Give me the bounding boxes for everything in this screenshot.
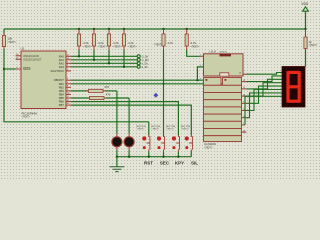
svg-text:SIL: SIL: [191, 160, 198, 165]
svg-text:RA0: RA0: [59, 54, 65, 58]
pin RB6 (12): [59, 100, 71, 104]
pin RB2 (8): [59, 85, 71, 89]
svg-text:<TEXT>: <TEXT>: [151, 128, 160, 131]
ground: [110, 157, 125, 172]
button RST: [137, 126, 154, 165]
node junction RB1/SEC: [162, 83, 164, 85]
svg-text:470: 470: [106, 93, 111, 97]
pin RA0 (17): [59, 54, 71, 58]
seg D: [288, 100, 300, 103]
node junction bus KPY: [177, 156, 179, 158]
node junction bus RST: [148, 156, 150, 158]
pin RA1 (18): [59, 58, 71, 62]
marker no-connect diamond: [153, 93, 158, 98]
pin U2 out a: [239, 72, 247, 74]
svg-text:U_Mh: U_Mh: [142, 58, 149, 62]
node junction VDD rail / R8: [304, 28, 306, 30]
svg-text:OSC1/CLKIN: OSC1/CLKIN: [23, 54, 39, 58]
pin RB0/INT (6): [54, 78, 71, 82]
resistor ladder U2 bar3: [204, 100, 242, 107]
svg-text:RST: RST: [144, 160, 153, 165]
wire left rail (MCLR pull-up net): [3, 29, 5, 34]
seg C: [298, 86, 301, 102]
resistor ladder U2 bar7: [204, 129, 242, 136]
wire R6 down to button SEC: [163, 50, 165, 137]
svg-text:<TEXT>: <TEXT>: [219, 50, 228, 53]
wire left rail lower: [4, 49, 149, 122]
svg-text:12: 12: [243, 80, 245, 82]
seg E: [286, 86, 289, 102]
svg-text:<TEXT>: <TEXT>: [128, 46, 137, 49]
svg-text:RB4: RB4: [59, 92, 65, 96]
svg-text:11: 11: [243, 87, 245, 89]
node junction RB0/U2 vertical: [196, 79, 198, 81]
wire RA2 row: [71, 62, 137, 64]
svg-text:<TEXT>: <TEXT>: [154, 44, 163, 47]
svg-text:<TEXT>: <TEXT>: [204, 146, 213, 149]
wire seg c: [247, 79, 283, 89]
pin RB1 (7): [59, 82, 71, 86]
lamp L1: [112, 134, 122, 157]
pin U2 out f: [242, 109, 247, 111]
svg-text:SEC: SEC: [160, 160, 170, 165]
pin U2 out g: [242, 116, 247, 118]
terminal T2: [137, 58, 149, 62]
pin RB5 (11): [59, 96, 71, 100]
pin U2 out dp: [242, 123, 246, 125]
terminal T1: [137, 54, 148, 58]
svg-text:RA1: RA1: [59, 58, 65, 62]
wire lamp2 drop: [128, 98, 130, 134]
pin RB7 (13): [59, 103, 71, 107]
wire R7 to U2 pin1: [187, 50, 200, 56]
power terminal VDD: [302, 2, 309, 29]
resistor R1 10k: [2, 34, 16, 50]
wire seg d: [247, 83, 283, 96]
7-segment display: [282, 67, 305, 108]
lamp L2: [124, 134, 134, 157]
svg-text:4.7k: 4.7k: [83, 41, 89, 45]
svg-text:KPY: KPY: [175, 160, 184, 165]
svg-text:<TEXT>: <TEXT>: [83, 46, 92, 49]
resistor ladder U2 bar6: [204, 121, 242, 128]
svg-text:10: 10: [243, 130, 245, 132]
resistor R4 4.7k: [107, 28, 122, 65]
pin RA2 (1): [59, 61, 71, 65]
pin OSC1/CLKIN (16): [16, 54, 39, 58]
resistor R6 4.7k (SEC pull-up): [154, 28, 173, 50]
wire seg g: [247, 93, 283, 118]
node junction bus L2: [128, 156, 130, 158]
wire MCLR to U1: [4, 68, 16, 70]
svg-text:d_Sh: d_Sh: [142, 65, 149, 69]
svg-text:7: 7: [243, 123, 244, 125]
wire seg dp: [245, 96, 282, 125]
resistor ladder U2 bar2: [204, 93, 242, 100]
svg-text:RB0/INT: RB0/INT: [54, 78, 64, 82]
pin RB3 (9): [59, 89, 71, 93]
svg-text:RB2: RB2: [59, 85, 65, 89]
resistor R7 4.7k (U2 input pull-up): [185, 28, 200, 50]
svg-text:1k: 1k: [309, 40, 313, 44]
svg-text:<TEXT>: <TEXT>: [137, 128, 146, 131]
resistor R2 4.7k: [77, 28, 92, 58]
resistor ladder U2 bar5: [204, 114, 242, 121]
svg-text:VDD: VDD: [302, 2, 309, 6]
microcontroller U1 PIC16F84A: [21, 47, 67, 119]
svg-text:<TEXT>: <TEXT>: [113, 46, 122, 49]
svg-text:OSC2/CLKOUT: OSC2/CLKOUT: [23, 57, 42, 61]
wire R8 to display: [305, 50, 307, 67]
svg-text:<TEXT>: <TEXT>: [7, 41, 16, 44]
wire ground bus: [117, 156, 191, 158]
wire RA1 row: [71, 59, 137, 61]
svg-text:<TEXT>: <TEXT>: [191, 46, 200, 49]
resistor ladder U2 bar8: [204, 136, 242, 150]
wire seg a: [247, 73, 283, 75]
node junction MCLR tap: [3, 68, 5, 70]
wire RA3 row: [71, 66, 137, 68]
svg-text:RB5: RB5: [59, 96, 65, 100]
svg-text:<TEXT>: <TEXT>: [309, 44, 318, 47]
svg-text:ULN2003: ULN2003: [204, 142, 216, 146]
svg-text:U1:A: U1:A: [210, 50, 217, 54]
pin U2 out d: [242, 94, 247, 96]
seg B: [298, 71, 301, 87]
wire U2 pin2 riser: [197, 67, 203, 80]
resistor R5 4.7k: [122, 28, 137, 68]
wire seg b: [247, 76, 283, 82]
seg A: [288, 71, 300, 74]
wire lamp1 drop: [116, 91, 118, 134]
pin MCLR (4): [16, 67, 31, 71]
pin U2 bottom: [242, 130, 247, 132]
svg-text:RB7: RB7: [59, 103, 65, 107]
wire RA0 row: [71, 55, 137, 57]
pin U2 out c: [242, 87, 247, 89]
wire RB6 row to button KPY: [71, 102, 178, 135]
svg-text:4.7k: 4.7k: [191, 41, 197, 45]
resistor R9 470 (lamp 1): [71, 85, 117, 92]
svg-text:U_Sh: U_Sh: [142, 54, 149, 58]
wire RB0 row to U2: [71, 79, 204, 81]
wire RB1 row: [71, 83, 223, 85]
button SIL: [181, 126, 198, 165]
svg-text:4.7k: 4.7k: [167, 41, 173, 45]
terminal T4: [137, 65, 148, 69]
svg-text:13: 13: [239, 72, 241, 74]
decoder U2 (U1:A): [200, 50, 244, 81]
relay box U2 B2: [223, 78, 242, 86]
pin U2 out b: [242, 80, 247, 82]
svg-text:<TEXT>: <TEXT>: [98, 46, 107, 49]
svg-text:9: 9: [243, 102, 244, 104]
svg-text:U1: U1: [21, 47, 25, 51]
svg-text:<TEXT>: <TEXT>: [181, 128, 190, 131]
svg-text:RB6: RB6: [59, 100, 65, 104]
node junction bus SEC: [162, 156, 164, 158]
svg-text:<TEXT>: <TEXT>: [22, 116, 31, 119]
wire seg f: [247, 90, 283, 111]
svg-text:RA3: RA3: [59, 65, 65, 69]
resistor R10 470 (lamp 2): [71, 93, 129, 100]
button SEC: [151, 126, 170, 165]
svg-text:470: 470: [104, 85, 109, 89]
svg-text:4.7k: 4.7k: [113, 41, 119, 45]
relay box U2 B1: [204, 78, 222, 86]
svg-text:RA4/T0CKI: RA4/T0CKI: [51, 69, 64, 73]
pin RA4/T0CKI (3): [51, 69, 71, 73]
wire seg e: [247, 86, 283, 103]
wire VDD top rail: [4, 28, 306, 30]
svg-text:PIC16F84A: PIC16F84A: [22, 111, 38, 115]
resistor ladder U2 bar4: [204, 107, 242, 114]
pin U2 out e: [242, 102, 247, 104]
wire RST button riser: [148, 122, 150, 135]
svg-text:RA2: RA2: [59, 61, 65, 65]
resistor R8 1k (display common): [304, 29, 318, 50]
node junction bus left: [116, 156, 118, 158]
wire RB7 row to button SIL: [71, 105, 191, 135]
svg-text:e_Sh: e_Sh: [142, 61, 149, 65]
resistor ladder U2 bar1: [204, 85, 242, 92]
resistor R3 4.7k: [92, 28, 107, 61]
terminal T3: [137, 61, 148, 65]
svg-text:10k: 10k: [7, 37, 12, 41]
svg-text:4.7k: 4.7k: [128, 41, 134, 45]
svg-text:RB1: RB1: [59, 82, 65, 86]
seg G: [288, 85, 300, 88]
pin RB4 (10): [59, 92, 71, 96]
pin RA3 (2): [59, 65, 71, 69]
button KPY: [166, 126, 184, 165]
svg-text:<TEXT>: <TEXT>: [166, 128, 175, 131]
svg-text:RB3: RB3: [59, 89, 65, 93]
pin OSC2/CLKOUT (15): [16, 57, 42, 61]
svg-text:4.7k: 4.7k: [98, 41, 104, 45]
seg F: [286, 71, 289, 87]
